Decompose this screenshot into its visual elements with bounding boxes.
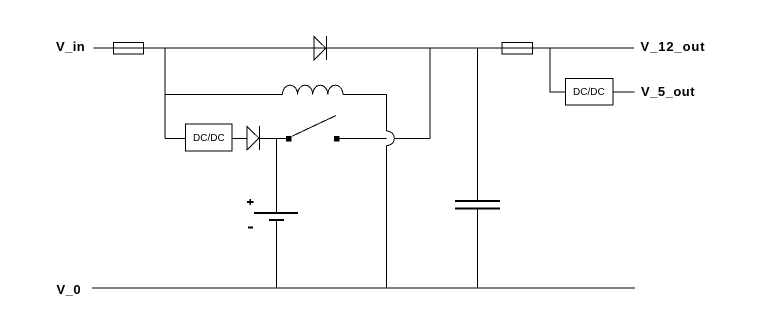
- DC/DC converter U2: [566, 79, 614, 106]
- battery minus label: [248, 227, 253, 229]
- wire capacitor to bottom rail: [477, 209, 479, 289]
- wire vertical D upper (rail to capacitor): [477, 48, 479, 201]
- battery B1: [254, 213, 298, 220]
- U2 box text: [573, 88, 605, 98]
- wire D2 to switch: [260, 138, 287, 140]
- wire vertical B upper: [386, 95, 388, 132]
- battery plus label: [247, 199, 254, 205]
- diode D1: [314, 36, 327, 60]
- wire DC/DC1 feed: [165, 138, 186, 140]
- wire switch to vertical C: [340, 138, 431, 140]
- U1 box text: [193, 134, 225, 144]
- wire inductor to vertical B: [343, 94, 387, 96]
- wire vertical B lower to bottom rail: [386, 146, 388, 288]
- wire vertical E (rail to U2): [550, 48, 566, 92]
- inductor L1: [283, 85, 343, 94]
- fuse F1: [114, 43, 144, 55]
- fuse F2: [502, 43, 533, 55]
- node V_0 label: [57, 283, 82, 296]
- node V_in label: [56, 40, 85, 53]
- wire inductor feed: [165, 94, 283, 96]
- wire top rail from V_in to V_12_out: [94, 47, 635, 49]
- wire vertical C (switch to top rail): [429, 48, 431, 139]
- node V_5_out label: [641, 85, 695, 98]
- switch S1: [286, 116, 340, 142]
- wire battery drop: [276, 139, 278, 213]
- DC/DC converter U1: [186, 124, 233, 151]
- wire battery to bottom rail: [276, 220, 278, 288]
- wire bottom rail V_0: [92, 287, 635, 289]
- node V_12_out label: [641, 40, 706, 53]
- wire U2 to V_5_out: [613, 91, 635, 93]
- wire U1 to D2: [232, 138, 247, 140]
- wire hop (crossover) on vertical B: [387, 131, 395, 146]
- diode D2: [247, 126, 260, 150]
- wire vertical branch A at x=165: [164, 48, 166, 139]
- capacitor C1: [455, 201, 500, 209]
